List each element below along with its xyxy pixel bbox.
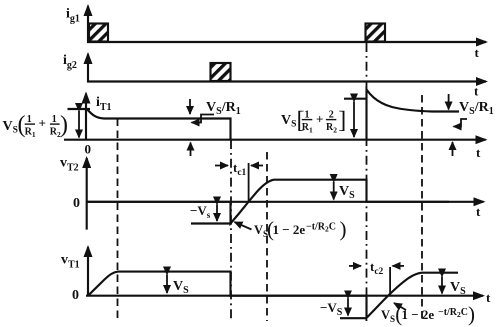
- t_c1 right arrow: [251, 165, 263, 167]
- svg-text:): ): [340, 217, 347, 241]
- measure arrow -VS row5: [347, 298, 349, 315]
- svg-text:VS: VS: [3, 119, 18, 136]
- up arrow below axis row3: [190, 143, 192, 157]
- svg-text:+: +: [316, 111, 323, 126]
- svg-text:VS/R1: VS/R1: [459, 100, 494, 117]
- x-axis i_T1: [64, 139, 486, 141]
- svg-text:t: t: [474, 84, 479, 99]
- svg-text:iT1: iT1: [96, 95, 112, 113]
- x-axis i_g1: [87, 41, 486, 43]
- measure arrow V_S(1/R1+1/R2): [78, 111, 80, 138]
- dash-dot reference line x=366.5: [366, 43, 368, 321]
- gate pulse i_g1 #2: [366, 24, 386, 42]
- y-axis i_T1: [85, 94, 87, 141]
- step leader arrow left: [192, 115, 215, 123]
- gate pulse i_g1 #1: [89, 24, 108, 42]
- dashed reference line x=267: [266, 152, 268, 321]
- tick peak level i_T1: [344, 98, 367, 100]
- dashed reference line x=422: [421, 95, 423, 321]
- svg-text:t: t: [476, 145, 481, 160]
- waveform v_T2: [87, 180, 449, 224]
- t_c1 left arrow: [215, 165, 228, 167]
- dash-dot reference line x=231: [230, 140, 232, 319]
- svg-text:−t/R2C: −t/R2C: [306, 221, 336, 233]
- svg-text:VS: VS: [381, 308, 395, 324]
- down arrow right V_S/R1: [448, 94, 450, 110]
- label V_S(1/R1+1/R2): [3, 112, 69, 139]
- tick -Vs level row4: [191, 222, 232, 224]
- t_c2 left arrow: [349, 265, 361, 267]
- svg-text:VS: VS: [173, 279, 189, 296]
- svg-text:t: t: [486, 290, 491, 305]
- y-axis v_T1: [87, 247, 89, 296]
- dashed reference line x=117.5: [117, 119, 119, 322]
- svg-text:VS: VS: [281, 113, 296, 130]
- svg-text:0: 0: [85, 142, 92, 157]
- measure arrow V_S row4: [333, 182, 335, 200]
- svg-text:t: t: [476, 204, 481, 219]
- x-axis v_T2: [86, 201, 484, 203]
- svg-text:−VS: −VS: [320, 300, 343, 318]
- svg-text:vT1: vT1: [61, 253, 80, 271]
- svg-text:R2: R2: [326, 122, 337, 134]
- label V_S(1-2e^-t/R2C) row4: [254, 217, 347, 241]
- label V_S[1/R1+2/R2]: [281, 107, 346, 134]
- svg-text:1 − 2e: 1 − 2e: [402, 307, 435, 322]
- measure arrow V_S row5 left: [166, 275, 168, 294]
- measure arrow V_S[1/R1+2/R2]: [353, 102, 355, 138]
- x-axis i_g2: [87, 80, 486, 82]
- svg-text:tc1: tc1: [233, 160, 247, 178]
- svg-text:R1: R1: [25, 127, 36, 139]
- measure arrow -Vs row4: [216, 205, 218, 222]
- svg-text:VS: VS: [339, 184, 355, 201]
- label V_S(1-2e^-t/R2C) row5: [381, 302, 475, 326]
- tick -VS level row5: [340, 317, 367, 319]
- svg-text:tc2: tc2: [370, 259, 384, 277]
- svg-text:0: 0: [73, 196, 80, 211]
- tick zero crossing t_c1: [248, 163, 250, 202]
- svg-text:): ): [60, 112, 68, 138]
- svg-text:R1: R1: [302, 122, 313, 134]
- waveform i_T1 first part: [87, 109, 231, 140]
- svg-text:t: t: [475, 45, 480, 60]
- t_c2 right arrow: [393, 265, 405, 267]
- svg-text:vT2: vT2: [60, 156, 79, 174]
- leader arrow to curve row5: [394, 303, 406, 310]
- y-axis i_g1: [87, 6, 89, 42]
- tick zero crossing t_c2: [389, 267, 391, 295]
- waveform i_T1 second part: [367, 90, 460, 140]
- down arrow at V_S/R1 level: [189, 99, 191, 114]
- svg-text:): ): [468, 302, 475, 326]
- x-axis v_T1: [86, 295, 483, 297]
- waveform v_T1: [88, 272, 458, 318]
- up arrow below axis right row3: [452, 142, 454, 156]
- svg-text:VS: VS: [450, 280, 466, 297]
- y-axis v_T2: [86, 158, 88, 230]
- svg-text:−Vs: −Vs: [190, 203, 211, 220]
- svg-text:−t/R2C: −t/R2C: [438, 307, 468, 319]
- svg-text:]: ]: [338, 107, 346, 133]
- y-axis i_g2: [87, 54, 89, 82]
- svg-text:ig1: ig1: [66, 7, 80, 25]
- svg-text:0: 0: [72, 288, 79, 303]
- svg-text:+: +: [39, 116, 46, 131]
- step leader arrow right: [454, 119, 468, 127]
- svg-text:VS: VS: [254, 223, 268, 239]
- gate pulse i_g2: [211, 63, 231, 81]
- svg-text:ig2: ig2: [63, 53, 77, 71]
- leader arrow to curve row4: [235, 222, 252, 230]
- tick initial level i_T1: [68, 108, 91, 110]
- measure arrow V_S row5 right: [441, 277, 443, 294]
- svg-text:1 − 2e: 1 − 2e: [273, 222, 306, 237]
